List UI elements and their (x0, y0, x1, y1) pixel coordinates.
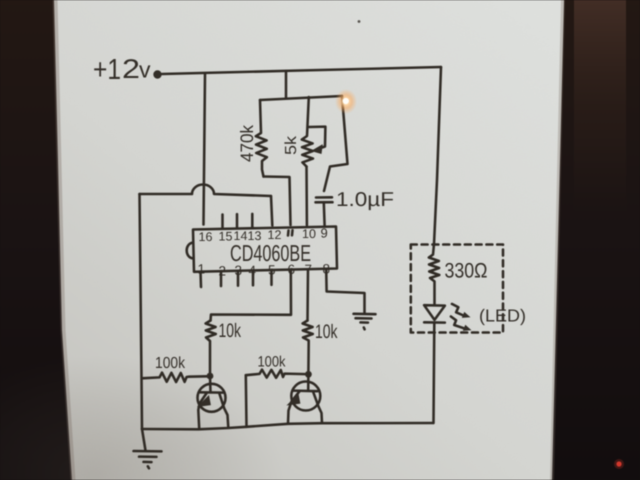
LED diode (424, 305, 445, 320)
wire: left rail (pin12 net) with hop over pin16 wire (140, 185, 272, 197)
node dot after +12V (153, 70, 161, 78)
svg-text:5k: 5k (283, 135, 300, 155)
stub pin 13 (251, 214, 254, 227)
stub pin 14 (236, 214, 239, 227)
wire: 5k bottom to pin 10 (305, 167, 308, 226)
wire: 100k right left-lead drop (245, 375, 248, 427)
svg-text:1.0µF: 1.0µF (336, 189, 394, 211)
svg-text:330Ω: 330Ω (445, 260, 488, 283)
IC notch (187, 243, 194, 259)
op IC U1 CD4060BE body (193, 227, 337, 272)
stub pin 4 (252, 271, 255, 286)
wire: connector rail to RC top wire (285, 71, 288, 98)
wire: 470k bottom to pin 11 (264, 177, 291, 226)
stub pin 2 (220, 271, 223, 286)
stray pen dot (358, 20, 361, 23)
wire: bottom rail (142, 423, 433, 429)
svg-text:16: 16 (199, 230, 213, 244)
paper grain overlay (54, 0, 564, 480)
node B: junction dot Q2 base (305, 371, 312, 378)
resistor 10k right (303, 321, 313, 373)
svg-text:470k: 470k (237, 124, 257, 162)
stub pin 3 (237, 271, 240, 286)
node A: junction dot Q1 base (207, 373, 214, 380)
svg-text:10k: 10k (315, 321, 338, 343)
wire: right rail down to LED box (434, 67, 441, 244)
ground (bottom left) (134, 451, 162, 468)
svg-text:14: 14 (234, 229, 248, 243)
bottom-left paper shadow (0, 355, 285, 480)
pin number 11 (two tick marks) (288, 230, 293, 235)
wire: drop to pin 12 (271, 196, 272, 226)
camera glare spot (335, 89, 357, 114)
warm reflection in right dark band (574, 0, 626, 210)
svg-text:2: 2 (122, 54, 140, 84)
wire: ground lead bottom left (142, 429, 146, 451)
red standby LED dot in dark area (616, 461, 621, 466)
svg-text:+1: +1 (93, 54, 121, 86)
wire: drop from rail to pin 16 (204, 74, 206, 225)
LED light arrow 1 (452, 304, 464, 316)
wire: pin 7 down to 10k right (306, 269, 309, 320)
wire: pin 8 to ground (326, 269, 364, 313)
LED light arrow 2 (451, 317, 464, 329)
resistor 10k left (206, 321, 216, 374)
wire: pin 6 down and left to 10k (211, 270, 292, 321)
wire: 5k wiper loop (309, 127, 326, 149)
svg-text:13: 13 (248, 229, 262, 243)
wire: LED cathode down to bottom rail (432, 323, 435, 423)
white paper sheet (54, 0, 564, 480)
transistor Q1 (198, 384, 226, 412)
arrowhead of 5k wiper (313, 145, 323, 153)
LED dashed enclosure (411, 245, 503, 333)
wire: RC network top wire (260, 96, 342, 100)
wire: left rail vertical (140, 194, 143, 429)
transistor Q2 (291, 382, 320, 411)
stub pin 1 (199, 272, 202, 287)
resistor 100k right (246, 370, 306, 378)
resistor 470k (256, 100, 267, 177)
stub pin 15 (221, 215, 224, 228)
svg-text:10: 10 (302, 227, 316, 241)
resistor 330ohm (429, 244, 440, 304)
potentiometer 5k (302, 97, 313, 167)
svg-text:100k: 100k (155, 355, 186, 372)
svg-text:15: 15 (219, 230, 233, 244)
paper left edge shadow (55, 0, 73, 480)
stub pin 5 (270, 270, 273, 285)
svg-text:(LED): (LED) (479, 306, 526, 326)
wire: RC right branch down to capacitor (324, 96, 348, 191)
resistor 100k left (142, 373, 207, 382)
svg-text:9: 9 (321, 226, 328, 241)
svg-text:100k: 100k (258, 354, 286, 371)
wire: +12V top rail (162, 67, 441, 74)
ground (IC pin 8) (354, 314, 376, 330)
capacitor 1.0uF (316, 196, 332, 199)
svg-text:10k: 10k (219, 320, 242, 342)
svg-text:v: v (139, 57, 151, 83)
svg-text:12: 12 (268, 228, 282, 242)
wire: capacitor bottom to pin 9 (323, 203, 326, 226)
paper right edge shadow (552, 0, 563, 480)
